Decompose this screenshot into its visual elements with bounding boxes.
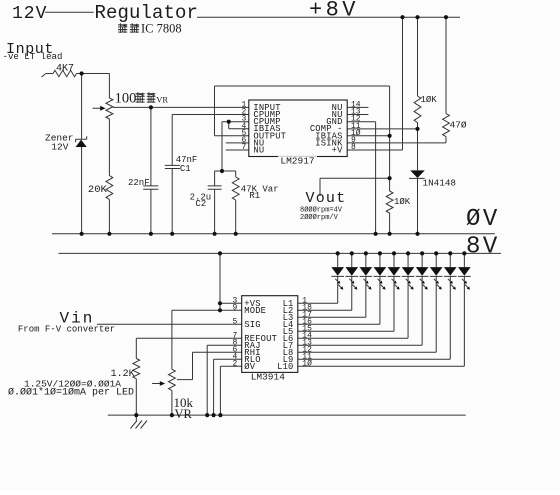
svg-text:LM2917: LM2917 <box>280 155 314 166</box>
svg-text:Vout: Vout <box>306 190 347 207</box>
svg-text:20K: 20K <box>88 184 108 196</box>
svg-text:NU: NU <box>253 145 264 155</box>
svg-text:12V: 12V <box>51 141 68 152</box>
svg-text:5: 5 <box>232 318 237 327</box>
svg-text:VR: VR <box>156 94 168 104</box>
svg-text:From F-V converter: From F-V converter <box>18 325 115 335</box>
svg-text:1ØK: 1ØK <box>394 197 411 207</box>
svg-text:4K7: 4K7 <box>56 63 74 74</box>
svg-text:-ve LT lead: -ve LT lead <box>3 52 63 62</box>
svg-text:IC 7808: IC 7808 <box>141 21 182 35</box>
svg-text:+8V: +8V <box>309 0 359 22</box>
svg-text:+V: +V <box>332 145 343 155</box>
svg-text:1ØK: 1ØK <box>421 95 438 105</box>
svg-text:100: 100 <box>115 91 137 107</box>
svg-text:47Ø: 47Ø <box>450 119 467 130</box>
svg-text:C1: C1 <box>180 164 191 174</box>
svg-text:9: 9 <box>232 304 237 313</box>
svg-text:ØV: ØV <box>466 206 500 233</box>
svg-text:VR: VR <box>175 407 193 421</box>
svg-text:7: 7 <box>241 143 246 152</box>
svg-text:1Ø: 1Ø <box>302 360 312 369</box>
svg-text:8: 8 <box>351 143 356 152</box>
svg-text:SIG: SIG <box>244 320 260 330</box>
svg-text:ØV: ØV <box>244 362 255 372</box>
svg-text:2: 2 <box>232 360 237 369</box>
svg-text:22nF: 22nF <box>128 178 150 188</box>
svg-text:8V: 8V <box>466 233 500 260</box>
svg-text:L10: L10 <box>277 362 293 372</box>
svg-text:12V: 12V <box>12 4 47 24</box>
svg-text:2ØØØrpm/V: 2ØØØrpm/V <box>300 213 339 222</box>
svg-text:R1: R1 <box>249 191 260 201</box>
svg-text:LM3914: LM3914 <box>251 372 286 383</box>
svg-text:C2: C2 <box>195 199 206 209</box>
svg-text:1N4148: 1N4148 <box>423 178 456 189</box>
svg-text:Ø.ØØ1*1Ø=1ØmA per LED: Ø.ØØ1*1Ø=1ØmA per LED <box>8 387 134 399</box>
svg-text:MODE: MODE <box>244 306 266 316</box>
